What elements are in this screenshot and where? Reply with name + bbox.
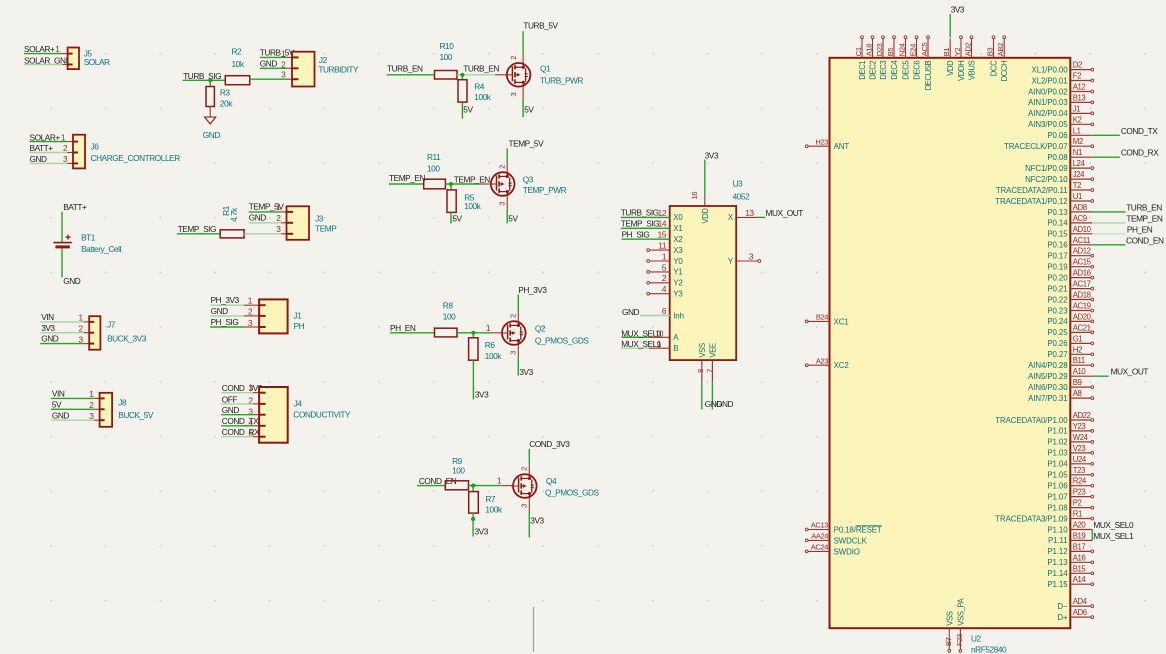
svg-text:nRF52840: nRF52840 xyxy=(971,645,1007,654)
svg-text:GND: GND xyxy=(211,306,229,316)
wire junction to R4 xyxy=(461,75,463,80)
svg-text:ANT: ANT xyxy=(834,142,850,151)
wire VIN to J8 pin 1 xyxy=(51,397,94,399)
svg-text:D−: D− xyxy=(1057,602,1068,611)
junction TURB_EN/R4 xyxy=(460,73,464,77)
U2 right pin N1 P0.08 xyxy=(1047,148,1119,162)
U2 right pin A14 P1.15 xyxy=(1047,575,1093,589)
svg-text:J24: J24 xyxy=(1073,170,1085,179)
svg-text:VSS: VSS xyxy=(945,611,954,626)
transistor Q4 xyxy=(511,474,536,499)
svg-text:MUX_SEL0: MUX_SEL0 xyxy=(621,328,662,338)
svg-text:P0.16: P0.16 xyxy=(1047,241,1068,250)
svg-text:GND: GND xyxy=(260,59,278,69)
resistor R9 xyxy=(445,456,468,490)
svg-text:CONDUCTIVITY: CONDUCTIVITY xyxy=(293,410,351,420)
svg-text:Y2: Y2 xyxy=(953,48,962,57)
svg-text:3V3: 3V3 xyxy=(475,526,489,536)
wire TURB_5V to J2 pin 1 xyxy=(260,56,287,58)
svg-text:AC19: AC19 xyxy=(1073,302,1091,311)
svg-text:AD20: AD20 xyxy=(1073,312,1092,321)
svg-text:OFF: OFF xyxy=(222,394,238,404)
svg-text:P1.10: P1.10 xyxy=(1047,525,1068,534)
svg-text:P1.01: P1.01 xyxy=(1047,427,1067,436)
svg-text:MUX_OUT: MUX_OUT xyxy=(1111,367,1149,377)
svg-text:3V3: 3V3 xyxy=(475,389,489,399)
U2 bottom pin F23 VSS_PA xyxy=(955,597,966,652)
battery BT1 xyxy=(53,232,121,254)
svg-text:P0.13: P0.13 xyxy=(1047,208,1068,217)
wire R9 to Q4 gate xyxy=(469,485,502,487)
svg-text:Q_PMOS_GDS: Q_PMOS_GDS xyxy=(535,335,590,345)
svg-text:A14: A14 xyxy=(1073,575,1087,584)
svg-text:V23: V23 xyxy=(1073,444,1086,453)
svg-text:P1.06: P1.06 xyxy=(1047,482,1068,491)
svg-text:TURB_PWR: TURB_PWR xyxy=(540,76,583,86)
svg-text:P0.22: P0.22 xyxy=(1047,295,1067,304)
svg-text:TEMP_EN: TEMP_EN xyxy=(1126,213,1162,223)
microcontroller U2 nRF52840 body xyxy=(830,58,1071,628)
svg-text:COND_TX: COND_TX xyxy=(1121,126,1158,136)
U2 right pin A12 AIN0/P0.02 xyxy=(1028,83,1094,97)
svg-text:SWDCLK: SWDCLK xyxy=(834,536,868,545)
svg-text:Y0: Y0 xyxy=(673,257,683,266)
svg-text:P0.23: P0.23 xyxy=(1047,306,1068,315)
svg-text:3V3: 3V3 xyxy=(41,323,55,333)
svg-text:DEC5: DEC5 xyxy=(902,60,911,80)
svg-text:J6: J6 xyxy=(91,141,100,151)
resistor R2 xyxy=(225,47,249,85)
svg-text:COND_RX: COND_RX xyxy=(222,427,260,437)
wire GND to J7 pin 3 xyxy=(40,343,83,345)
svg-text:3V3: 3V3 xyxy=(519,367,533,377)
U2 right pin R24 P1.06 xyxy=(1047,477,1093,491)
svg-text:DEC3: DEC3 xyxy=(879,61,888,80)
wire Q4 source to 3V3 xyxy=(528,498,530,510)
U2 bottom pin B7 VSS xyxy=(944,611,955,652)
svg-text:PH_SIG: PH_SIG xyxy=(211,317,239,327)
svg-text:U2: U2 xyxy=(971,634,982,644)
pin 5 stub U3 (Y1) xyxy=(650,271,670,273)
svg-text:AD18: AD18 xyxy=(1073,291,1091,300)
svg-text:GND: GND xyxy=(622,307,640,317)
U2 top pin N24 DEC5 xyxy=(898,36,911,80)
svg-text:MUX_OUT: MUX_OUT xyxy=(766,208,804,218)
wire COND_3V3 to Q4 drain xyxy=(528,449,530,465)
U2 right pin H2 P0.27 xyxy=(1047,345,1093,359)
svg-text:AC5: AC5 xyxy=(920,43,929,57)
wire 3V3 to U3 VDD xyxy=(704,160,706,196)
wire PH_EN to R8 xyxy=(390,332,435,334)
svg-text:P1.05: P1.05 xyxy=(1047,471,1068,480)
svg-text:U24: U24 xyxy=(1073,455,1087,464)
svg-text:SOLAR+: SOLAR+ xyxy=(30,132,61,142)
svg-text:AD22: AD22 xyxy=(1073,411,1091,420)
svg-text:XL2/P0.01: XL2/P0.01 xyxy=(1032,76,1068,85)
pin 1 stub U3 (Y0) xyxy=(650,260,670,262)
connector J1 xyxy=(259,299,305,333)
svg-text:P1.13: P1.13 xyxy=(1047,558,1068,567)
svg-text:GND: GND xyxy=(222,405,240,415)
svg-text:TEMP: TEMP xyxy=(315,223,337,233)
U2 right pin K2 AIN3/P0.05 xyxy=(1028,115,1094,129)
svg-text:R3: R3 xyxy=(220,88,231,98)
svg-text:AD6: AD6 xyxy=(1073,608,1087,617)
svg-text:SOLAR: SOLAR xyxy=(84,57,110,67)
svg-text:P1.08: P1.08 xyxy=(1047,503,1068,512)
U2 top pin B1 VDD xyxy=(942,38,955,75)
resistor R8 xyxy=(435,300,458,337)
U2 right pin F2 XL2/P0.01 xyxy=(1032,72,1094,86)
U2 right pin B9 AIN6/P0.30 xyxy=(1028,378,1094,392)
wire MUX_SEL0/MUX_SEL1 stubs join xyxy=(1091,530,1093,541)
svg-text:BT1: BT1 xyxy=(81,232,96,242)
svg-text:14: 14 xyxy=(658,219,667,229)
U2 right pin AD12 P0.17 xyxy=(1047,247,1093,261)
svg-text:16: 16 xyxy=(690,192,699,200)
U2 left pin B24 XC1 xyxy=(805,313,848,327)
U2 right pin J1 AIN2/P0.04 xyxy=(1028,104,1094,118)
svg-text:GND: GND xyxy=(203,130,221,140)
U2 right pin T2 TRACEDATA2/P0.11 xyxy=(996,181,1094,195)
svg-text:AIN2/P0.04: AIN2/P0.04 xyxy=(1028,109,1068,118)
svg-text:GND: GND xyxy=(716,399,734,409)
svg-text:F2: F2 xyxy=(1073,72,1081,81)
vertical gray line xyxy=(533,607,535,652)
svg-text:W24: W24 xyxy=(1073,433,1089,442)
wire Q1 source to 5V xyxy=(522,87,524,99)
resistor R4 xyxy=(458,80,492,102)
svg-text:12: 12 xyxy=(658,208,667,218)
svg-text:P1.15: P1.15 xyxy=(1047,580,1068,589)
svg-text:TRACEDATA2/P0.11: TRACEDATA2/P0.11 xyxy=(996,186,1068,195)
U2 top pin Y2 VDDH xyxy=(953,36,966,81)
junction COND_EN/R7 xyxy=(471,484,475,488)
svg-text:BATT+: BATT+ xyxy=(63,202,87,212)
svg-text:AIN4/P0.28: AIN4/P0.28 xyxy=(1028,361,1068,370)
svg-text:100k: 100k xyxy=(485,505,502,515)
svg-text:TEMP_PWR: TEMP_PWR xyxy=(523,185,567,195)
U2 right pin P2 P1.08 xyxy=(1047,499,1093,513)
svg-text:A23: A23 xyxy=(816,356,828,365)
wire TEMP_EN to R11 xyxy=(389,183,424,185)
svg-text:XL1/P0.00: XL1/P0.00 xyxy=(1032,65,1069,74)
svg-text:X2: X2 xyxy=(673,235,682,244)
junction PH_EN/R6 xyxy=(471,331,475,335)
svg-text:AD16: AD16 xyxy=(1073,269,1091,278)
wire R10 to Q1 gate xyxy=(457,74,495,76)
wire SOLAR+ to J5 pin 1 xyxy=(24,53,63,55)
svg-text:MUX_SEL0: MUX_SEL0 xyxy=(1093,520,1134,530)
svg-text:P1.14: P1.14 xyxy=(1047,569,1068,578)
svg-text:TURB_5V: TURB_5V xyxy=(260,48,295,58)
svg-text:N1: N1 xyxy=(1073,148,1082,157)
connector J8 xyxy=(100,393,154,427)
svg-text:3V3: 3V3 xyxy=(951,4,965,14)
svg-text:P2: P2 xyxy=(1073,499,1082,508)
U2 right pin AD22 TRACEDATA0/P1.00 xyxy=(995,411,1093,425)
svg-text:3V3: 3V3 xyxy=(530,515,544,525)
svg-text:D2: D2 xyxy=(1073,61,1082,70)
svg-text:GND: GND xyxy=(30,154,48,164)
svg-text:P0.21: P0.21 xyxy=(1047,284,1067,293)
svg-text:B19: B19 xyxy=(1073,531,1086,540)
svg-text:AIN7/P0.31: AIN7/P0.31 xyxy=(1028,394,1067,403)
connector J7 xyxy=(89,316,147,350)
wire PH_SIG to J1 pin 3 xyxy=(210,326,244,328)
U2 right pin M2 TRACECLK/P0.07 xyxy=(1004,137,1094,151)
U2 right pin J24 NFC2/P0.10 xyxy=(1025,170,1094,184)
svg-text:P0.18/RESET: P0.18/RESET xyxy=(834,525,882,534)
svg-text:AA24: AA24 xyxy=(811,532,828,541)
svg-text:P0.17: P0.17 xyxy=(1047,252,1067,261)
svg-text:AD4: AD4 xyxy=(1073,597,1088,606)
svg-text:P1.11: P1.11 xyxy=(1048,536,1068,545)
wire junction to R6 xyxy=(472,333,474,338)
U2 right pin AD8 P0.13 xyxy=(1047,203,1125,217)
svg-text:H23: H23 xyxy=(815,137,828,146)
svg-text:2: 2 xyxy=(509,56,518,60)
wire GND to J2 pin 2 xyxy=(260,67,287,69)
wire junction to R5 xyxy=(450,184,452,190)
svg-text:A12: A12 xyxy=(1073,83,1086,92)
svg-text:P0.24: P0.24 xyxy=(1047,317,1068,326)
wire R3 top xyxy=(209,80,211,86)
wire GND to J1 pin 2 xyxy=(210,315,244,317)
U2 right pin L24 NFC1/P0.09 xyxy=(1025,159,1094,173)
svg-text:5V: 5V xyxy=(508,214,518,224)
wire R1 to J3 pin 3 xyxy=(244,233,281,235)
svg-text:P0.14: P0.14 xyxy=(1047,219,1068,228)
wire junction to R7 xyxy=(472,486,474,492)
svg-text:AC15: AC15 xyxy=(1073,258,1092,267)
U2 top pin B5 DEC4 xyxy=(886,36,899,80)
U2 top pin AD2 VBUS xyxy=(964,36,977,80)
svg-text:SWDIO: SWDIO xyxy=(834,547,860,556)
U2 right pin A8 AIN7/P0.31 xyxy=(1028,389,1094,403)
wire COND_RX to J4 pin 5 xyxy=(221,436,253,438)
U2 top pin E24 DEC6 xyxy=(909,36,922,80)
svg-text:P0.19: P0.19 xyxy=(1047,263,1068,272)
U2 right pin B11 AIN4/P0.28 xyxy=(1028,356,1094,370)
wire TURB_EN to R10 xyxy=(387,74,435,76)
connector J3 xyxy=(287,206,338,240)
svg-text:100: 100 xyxy=(427,164,440,174)
svg-text:COND_RX: COND_RX xyxy=(1121,148,1159,158)
svg-text:BATT+: BATT+ xyxy=(30,143,54,153)
wire MUX_SEL1 to U3 B xyxy=(622,347,650,349)
svg-text:3: 3 xyxy=(498,202,507,206)
svg-text:TRACECLK/P0.07: TRACECLK/P0.07 xyxy=(1004,142,1068,151)
svg-text:11: 11 xyxy=(658,241,667,251)
svg-text:DEC4: DEC4 xyxy=(890,60,899,80)
wire MUX_SEL0 to U3 A xyxy=(622,336,650,338)
svg-text:P1.04: P1.04 xyxy=(1047,460,1068,469)
wire R6 to 3V3 xyxy=(472,360,474,399)
svg-text:U3: U3 xyxy=(733,179,744,189)
wire SOLAR+ to J6 pin 1 xyxy=(30,141,68,143)
U2 right pin AD10 P0.15 xyxy=(1047,225,1125,239)
wire GND to J4 pin 3 xyxy=(221,414,253,416)
U2 left pin H23 ANT xyxy=(805,137,849,151)
wire Q2 source to 3V3 xyxy=(517,345,519,357)
svg-text:VIN: VIN xyxy=(52,389,65,399)
U2 right pin A10 AIN5/P0.29 xyxy=(1028,367,1108,381)
svg-text:J1: J1 xyxy=(1073,104,1080,113)
svg-text:PH_EN: PH_EN xyxy=(390,323,416,333)
svg-text:N24: N24 xyxy=(898,43,907,56)
svg-text:B3: B3 xyxy=(986,48,995,57)
svg-text:E24: E24 xyxy=(909,44,918,56)
svg-text:TURB_SIG: TURB_SIG xyxy=(621,208,659,218)
U2 left pin AC24 SWDIO xyxy=(805,543,860,557)
svg-text:Battery_Cell: Battery_Cell xyxy=(81,244,121,254)
resistor R6 xyxy=(469,338,503,361)
wire COND_TX to J4 pin 4 xyxy=(221,425,253,427)
resistor R3 xyxy=(206,87,233,109)
U2 right pin AC11 P0.16 xyxy=(1047,236,1125,250)
svg-text:P1.07: P1.07 xyxy=(1047,492,1067,501)
U2 right pin A20 P1.10 xyxy=(1047,521,1092,535)
U2 right pin G1 P0.26 xyxy=(1047,334,1093,348)
svg-text:VSS_PA: VSS_PA xyxy=(956,597,965,625)
svg-text:TURB_EN: TURB_EN xyxy=(387,64,423,74)
transistor Q2 xyxy=(500,321,525,346)
svg-text:20k: 20k xyxy=(220,99,233,109)
svg-text:B: B xyxy=(673,344,678,353)
svg-text:TEMP_5V: TEMP_5V xyxy=(509,139,545,149)
svg-text:COND_3V3: COND_3V3 xyxy=(222,383,263,393)
wire OFF to J4 pin 2 xyxy=(221,403,253,405)
svg-text:K2: K2 xyxy=(1073,115,1082,124)
svg-text:R4: R4 xyxy=(474,82,485,92)
U2 right pin D2 XL1/P0.00 xyxy=(1032,61,1094,75)
wire PH_3V3 to J1 pin 1 xyxy=(210,304,244,306)
svg-text:D+: D+ xyxy=(1057,613,1068,622)
svg-text:VIN: VIN xyxy=(41,312,54,322)
svg-text:DCC: DCC xyxy=(990,60,999,76)
svg-text:B24: B24 xyxy=(816,313,828,322)
svg-text:L24: L24 xyxy=(1073,159,1086,168)
svg-text:CHARGE_CONTROLLER: CHARGE_CONTROLLER xyxy=(91,153,181,163)
wire R5 to 5V xyxy=(450,212,452,223)
svg-text:3: 3 xyxy=(520,504,529,508)
svg-text:AIN3/P0.05: AIN3/P0.05 xyxy=(1028,120,1068,129)
U2 top pin AC5 DECUSB xyxy=(920,36,933,91)
svg-text:TRACEDATA3/P1.09: TRACEDATA3/P1.09 xyxy=(995,514,1068,523)
svg-text:100: 100 xyxy=(452,466,465,476)
wire R7 to 3V3 xyxy=(472,513,474,536)
svg-text:G1: G1 xyxy=(1073,334,1083,343)
U2 right pin AD16 P0.20 xyxy=(1047,269,1093,283)
svg-text:A10: A10 xyxy=(1073,367,1087,376)
svg-text:NFC2/P0.10: NFC2/P0.10 xyxy=(1025,175,1068,184)
svg-text:P0.20: P0.20 xyxy=(1047,273,1068,282)
svg-text:P0.27: P0.27 xyxy=(1047,350,1067,359)
svg-text:VDD: VDD xyxy=(701,208,710,224)
svg-text:B5: B5 xyxy=(886,48,895,57)
U2 right pin T23 P1.05 xyxy=(1047,466,1093,480)
svg-text:NFC1/P0.09: NFC1/P0.09 xyxy=(1025,164,1068,173)
svg-text:J3: J3 xyxy=(315,213,324,223)
transistor Q3 xyxy=(489,172,514,197)
transistor Q1 xyxy=(505,63,530,88)
U2 top pin B3 DCC xyxy=(986,36,999,76)
svg-text:BUCK_5V: BUCK_5V xyxy=(118,410,154,420)
resistor R1 xyxy=(220,205,244,238)
svg-text:COND_TX: COND_TX xyxy=(222,416,259,426)
svg-text:COND_3V3: COND_3V3 xyxy=(529,439,570,449)
svg-text:TURB_SIG: TURB_SIG xyxy=(183,71,221,81)
wire GND to J8 pin 3 xyxy=(51,419,94,421)
svg-text:5V: 5V xyxy=(52,399,62,409)
svg-text:R9: R9 xyxy=(452,456,463,466)
svg-text:R24: R24 xyxy=(1073,477,1087,486)
U2 right pin R1 TRACEDATA3/P1.09 xyxy=(995,510,1093,524)
U2 right pin AC17 P0.21 xyxy=(1047,280,1093,294)
junction TEMP_EN/R5 xyxy=(449,182,453,186)
U2 right pin V23 P1.03 xyxy=(1047,444,1093,458)
svg-text:R2: R2 xyxy=(232,47,243,57)
wire 5V to J8 pin 2 xyxy=(51,408,94,410)
svg-text:D23: D23 xyxy=(875,43,884,56)
wire TEMP_5V to J3 pin 1 xyxy=(249,211,281,213)
svg-text:TRACEDATA1/P0.12: TRACEDATA1/P0.12 xyxy=(995,197,1067,206)
connector J5 xyxy=(68,48,110,70)
pin 3 stub U3 (Y) xyxy=(736,260,758,262)
svg-text:J8: J8 xyxy=(118,398,127,408)
svg-text:VDDH: VDDH xyxy=(957,61,966,81)
svg-text:U1: U1 xyxy=(1073,192,1082,201)
svg-text:A18: A18 xyxy=(865,44,874,56)
svg-text:AD2: AD2 xyxy=(964,43,973,57)
U2 right pin W24 P1.02 xyxy=(1047,433,1093,447)
svg-text:VDD: VDD xyxy=(946,60,955,76)
svg-text:J4: J4 xyxy=(294,399,303,409)
svg-text:BUCK_3V3: BUCK_3V3 xyxy=(107,333,147,343)
svg-text:COND_EN: COND_EN xyxy=(1126,235,1164,245)
svg-text:PH_3V3: PH_3V3 xyxy=(211,295,240,305)
svg-text:GND: GND xyxy=(41,334,59,344)
svg-text:TEMP_EN: TEMP_EN xyxy=(454,175,490,185)
svg-text:AIN1/P0.03: AIN1/P0.03 xyxy=(1028,98,1068,107)
svg-text:TEMP_SIG: TEMP_SIG xyxy=(178,224,216,234)
U2 top pin D23 DEC3 xyxy=(875,36,888,80)
svg-text:Q2: Q2 xyxy=(535,323,546,333)
svg-text:X3: X3 xyxy=(673,246,683,255)
svg-text:Y1: Y1 xyxy=(673,268,682,277)
svg-text:L1: L1 xyxy=(1073,126,1081,135)
svg-text:AD10: AD10 xyxy=(1073,225,1092,234)
wire R8 to Q2 gate xyxy=(457,332,490,334)
wire U3 X to MUX_OUT xyxy=(736,216,758,218)
connector J2 xyxy=(292,52,359,87)
U2 right pin AD4 D− xyxy=(1057,597,1093,611)
svg-text:PH_EN: PH_EN xyxy=(1127,224,1153,234)
svg-text:AC13: AC13 xyxy=(811,521,828,530)
svg-text:TURB_5V: TURB_5V xyxy=(523,21,558,31)
U2 right pin B13 AIN1/P0.03 xyxy=(1028,93,1094,107)
svg-text:100k: 100k xyxy=(485,351,502,361)
U2 right pin P23 P1.07 xyxy=(1047,488,1093,502)
svg-text:GND: GND xyxy=(249,212,267,222)
svg-text:A16: A16 xyxy=(1073,553,1086,562)
U2 right pin U1 TRACEDATA1/P0.12 xyxy=(995,192,1093,206)
wire TURB_SIG to R2 xyxy=(183,79,226,81)
svg-text:AC9: AC9 xyxy=(1073,214,1087,223)
svg-text:AIN0/P0.02: AIN0/P0.02 xyxy=(1028,87,1067,96)
svg-text:R1: R1 xyxy=(1073,510,1082,519)
